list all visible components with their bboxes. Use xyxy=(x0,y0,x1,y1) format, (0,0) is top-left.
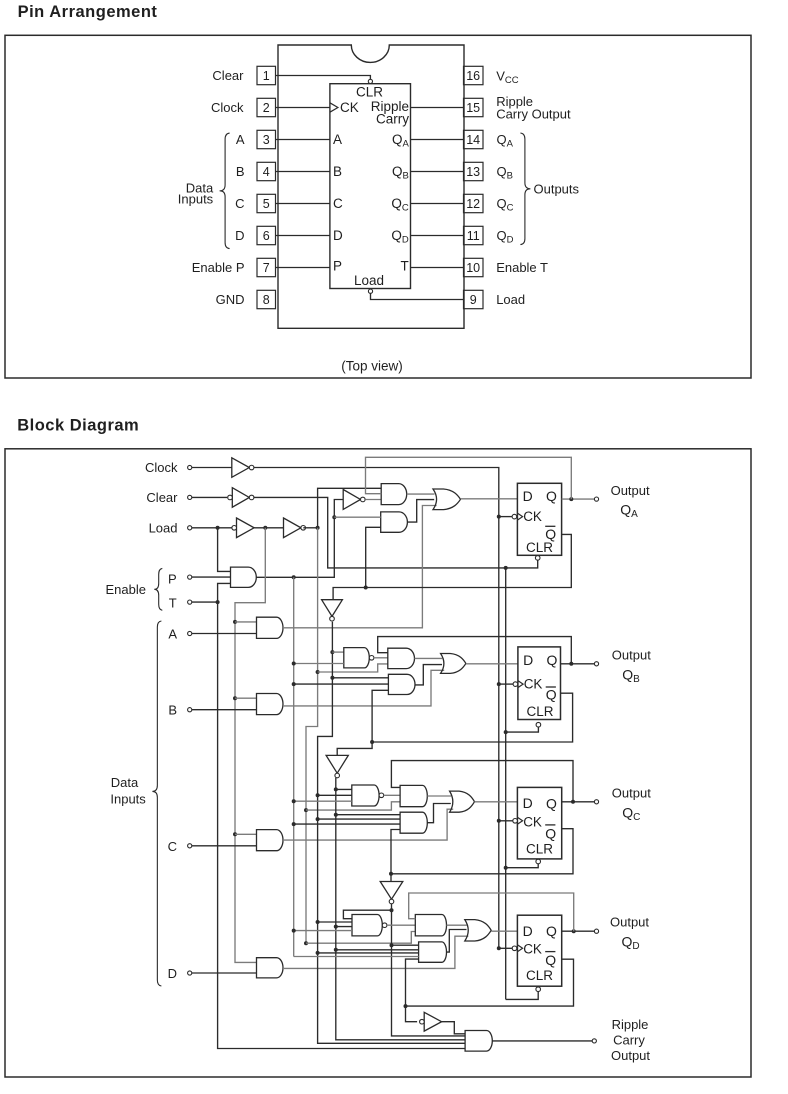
svg-text:Load: Load xyxy=(496,292,525,307)
pin box 15 xyxy=(464,98,484,116)
wire T bus from load line to enable gate xyxy=(218,528,231,572)
bubble CK QD xyxy=(512,946,517,951)
svg-text:Output: Output xyxy=(611,1048,650,1063)
junction CK QB xyxy=(497,682,501,686)
svg-text:T: T xyxy=(169,595,177,610)
wire QB feedback loop xyxy=(378,637,572,664)
load inverter G4 xyxy=(284,518,301,538)
junction LD bus xyxy=(316,526,320,530)
wire pin 1 to CLR bubble xyxy=(276,76,371,80)
wire QD or output to D input xyxy=(491,930,517,932)
svg-text:Q: Q xyxy=(546,923,557,939)
wire T input to junction xyxy=(192,601,218,603)
svg-text:Load: Load xyxy=(149,521,178,536)
svg-text:D: D xyxy=(523,488,533,504)
svg-text:P: P xyxy=(333,259,342,274)
svg-text:Clock: Clock xyxy=(145,460,178,475)
svg-text:P: P xyxy=(168,571,177,586)
wire pin 14 to inner box xyxy=(411,139,464,141)
svg-text:Carry: Carry xyxy=(613,1033,645,1048)
svg-text:CK: CK xyxy=(340,100,359,115)
wire pin 9 to Load bubble xyxy=(371,293,464,299)
svg-text:Q: Q xyxy=(546,796,557,812)
QA and2 gate xyxy=(381,512,408,532)
wire QD Q output xyxy=(562,930,595,932)
QB or gate xyxy=(441,654,466,674)
junction QB to QC and2 xyxy=(334,813,338,817)
svg-text:CLR: CLR xyxy=(526,968,553,983)
wire QC and2 output riser to or xyxy=(427,804,451,823)
svg-text:D: D xyxy=(523,795,533,811)
junction PT QC and2 xyxy=(292,822,296,826)
svg-text:B: B xyxy=(168,703,177,718)
wire PT to QB and2 xyxy=(294,683,389,685)
node QC output terminal xyxy=(594,800,598,804)
pin box 12 xyxy=(464,194,484,212)
svg-text:9: 9 xyxy=(470,293,477,307)
wire pin 4 to inner box xyxy=(276,171,330,173)
junction QA to QC nand xyxy=(316,793,320,797)
wire T riser to enable gate xyxy=(218,583,231,602)
wire QC or output to D input xyxy=(475,801,518,803)
bubble CK QB xyxy=(513,682,518,687)
junction CLR bus top xyxy=(504,566,508,570)
svg-text:Ripple: Ripple xyxy=(612,1017,649,1032)
node T input terminal xyxy=(188,600,192,604)
svg-text:C: C xyxy=(168,839,177,854)
pin box 16 xyxy=(464,66,484,84)
wire Clear input to inverter xyxy=(192,496,227,498)
clock wedge symbol xyxy=(330,103,338,112)
bubble CK QA xyxy=(512,514,517,519)
svg-text:Load: Load xyxy=(354,273,384,288)
wire T bus down to ripple gate xyxy=(218,602,466,1048)
svg-text:D: D xyxy=(333,228,343,243)
QA or gate xyxy=(433,489,461,510)
QB and1 gate xyxy=(388,648,415,668)
junction QD feedback xyxy=(572,929,576,933)
wire QA and2 output riser to or xyxy=(407,500,434,522)
CLR input bubble (pin diagram) xyxy=(368,79,372,83)
wire QA and1 output to or xyxy=(407,493,435,495)
wire A gate output to QA or xyxy=(283,506,437,628)
bubble CLR QC flipflop xyxy=(536,859,541,864)
wire QA Q-bar riser to and2 xyxy=(366,527,381,587)
brace enable PT xyxy=(154,568,162,610)
wire QB bus xyxy=(336,778,465,1040)
node D input terminal xyxy=(188,971,192,975)
junction PT to QA and2 xyxy=(332,515,336,519)
svg-text:Data: Data xyxy=(111,775,139,790)
pin box 7 xyxy=(257,258,276,276)
svg-text:CLR: CLR xyxy=(526,841,553,856)
svg-text:CK: CK xyxy=(523,509,542,524)
wire QD Q-bar loop xyxy=(406,959,574,1006)
node QD output terminal xyxy=(594,929,598,933)
wire QB Q output xyxy=(561,663,595,665)
wire ripple gate output xyxy=(492,1040,592,1042)
wire pin 13 to inner box xyxy=(411,171,464,173)
svg-text:11: 11 xyxy=(467,229,480,243)
brace data inputs pins 3-6 xyxy=(220,133,230,249)
wire CLR bus xyxy=(505,568,507,1000)
svg-text:12: 12 xyxy=(466,197,480,211)
svg-text:Q: Q xyxy=(545,825,556,841)
junction QA to QD nand xyxy=(316,920,320,924)
svg-text:16: 16 xyxy=(466,69,480,83)
junction QC to QD and2 xyxy=(390,943,394,947)
pin box 13 xyxy=(464,162,484,180)
QA inverter (down) xyxy=(322,600,343,617)
junction CLR QB xyxy=(504,730,508,734)
wire A input to gate xyxy=(192,633,257,635)
flipflop QB xyxy=(518,647,561,720)
wire QD nand to and1 xyxy=(387,924,415,926)
svg-text:CLR: CLR xyxy=(356,85,383,100)
wire PT branch to QA and2 xyxy=(334,516,380,518)
junction CK QA xyxy=(497,515,501,519)
junction QA to QD and2 xyxy=(316,951,320,955)
QD nand gate xyxy=(352,915,382,936)
wire CLR to QB flipflop xyxy=(506,727,539,732)
svg-text:Enable: Enable xyxy=(106,582,146,597)
wire LD to QB and1 jog xyxy=(318,664,388,672)
svg-text:A: A xyxy=(236,132,245,147)
wire LD-bar bus xyxy=(235,528,265,963)
svg-text:C: C xyxy=(333,196,343,211)
wire PT bus down xyxy=(293,577,295,956)
node P input terminal xyxy=(188,575,192,579)
junction QC Q-bar riser xyxy=(389,872,393,876)
svg-text:CK: CK xyxy=(523,814,542,829)
wire B input to gate xyxy=(192,709,257,711)
svg-text:(Top view): (Top view) xyxy=(341,359,403,374)
junction QC feedback xyxy=(571,800,575,804)
ripple buffer G7 (input bubble) xyxy=(424,1012,441,1031)
load buffer G3 (input bubble) xyxy=(237,518,255,538)
wire QB and2 output riser to or xyxy=(415,665,442,685)
pin box 2 xyxy=(257,98,276,116)
bubble QD nand xyxy=(382,923,387,928)
wire CK stub QD xyxy=(499,947,512,949)
wire load inverter output xyxy=(303,527,317,529)
wire pin 15 to inner box xyxy=(411,107,464,109)
wire QA bus xyxy=(318,622,466,1044)
wire pin 5 to inner box xyxy=(276,203,330,205)
wire LD to QD and1 jog xyxy=(306,932,415,944)
junction QA feedback xyxy=(569,497,573,501)
svg-text:4: 4 xyxy=(263,165,270,179)
QB and2 gate xyxy=(388,674,415,694)
svg-text:6: 6 xyxy=(263,229,270,243)
svg-text:D: D xyxy=(523,923,533,939)
bubble CK QC xyxy=(513,819,518,824)
wire QB or output to D input xyxy=(466,663,518,665)
data AND gate D xyxy=(257,958,284,978)
pin box 5 xyxy=(257,194,276,212)
junction QB to QD nand xyxy=(334,925,338,929)
junction CLR QC xyxy=(504,866,508,870)
svg-text:D: D xyxy=(235,228,244,243)
svg-text:10: 10 xyxy=(466,261,480,275)
wire CK stub QB xyxy=(499,683,513,685)
svg-text:Enable T: Enable T xyxy=(496,260,548,275)
wire pin 7 to inner box xyxy=(276,267,330,269)
wire QC bus xyxy=(392,904,466,1036)
bubble QC nand xyxy=(379,793,384,798)
wire CK stub QA xyxy=(499,516,512,518)
wire enable gate output to PT bus xyxy=(256,500,343,578)
wire PT to QB nand xyxy=(294,663,344,665)
wire LD to QC and1 jog xyxy=(306,802,400,810)
junction PT QC nand xyxy=(292,799,296,803)
QD or gate xyxy=(465,920,491,941)
Load input bubble (pin diagram) xyxy=(368,289,372,293)
pin box 14 xyxy=(464,130,484,148)
wire QC feedback loop xyxy=(391,761,573,802)
wire pin 6 to inner box xyxy=(276,235,330,237)
junction QC to QD nand jog xyxy=(390,908,394,912)
svg-text:GND: GND xyxy=(216,292,245,307)
svg-text:Clear: Clear xyxy=(212,68,244,83)
junction QB to QD and2 xyxy=(334,948,338,952)
data AND gate A xyxy=(257,617,284,638)
bubble QB nand xyxy=(369,656,374,661)
svg-text:Carry: Carry xyxy=(376,112,409,127)
svg-text:Output: Output xyxy=(610,915,649,930)
wire QB Q-bar riser to and2 xyxy=(372,690,388,742)
node A input terminal xyxy=(188,631,192,635)
wire clear inverter to CLR distribution xyxy=(254,497,538,568)
junction QB Q-bar riser xyxy=(370,740,374,744)
node Clear input terminal xyxy=(188,495,192,499)
wire enable inverter to QA and1 xyxy=(365,499,381,501)
QC and2 gate xyxy=(400,812,427,833)
IC package body DIP-16 outline with notch xyxy=(278,45,464,328)
pin box 3 xyxy=(257,130,276,148)
wire QD and2 output riser to or xyxy=(447,930,467,953)
junction LD to QC and1 xyxy=(304,808,308,812)
svg-text:Enable P: Enable P xyxy=(192,260,245,275)
junction LD-bar to C gate xyxy=(233,832,237,836)
brace data inputs A-D xyxy=(152,621,161,986)
svg-text:7: 7 xyxy=(263,261,270,275)
pin box 11 xyxy=(464,226,484,244)
svg-text:Output: Output xyxy=(612,786,651,801)
wire QA Q-bar loop xyxy=(333,534,571,599)
wire QD Q-bar to ripple buffer xyxy=(406,1006,418,1022)
wire PT to QD nand xyxy=(294,930,352,932)
svg-text:15: 15 xyxy=(466,101,480,115)
svg-text:Clock: Clock xyxy=(211,100,244,115)
node C input terminal xyxy=(188,844,192,848)
QB inverter (down) xyxy=(326,755,348,773)
QA and1 gate xyxy=(381,484,407,505)
bubble CLR QA flipflop xyxy=(535,556,540,561)
svg-text:Outputs: Outputs xyxy=(534,182,580,197)
QD and2 gate xyxy=(419,942,447,962)
wire QB nand to and1 xyxy=(374,657,388,659)
clock buffer G1 xyxy=(232,458,250,478)
node QB output terminal xyxy=(594,662,598,666)
svg-text:D: D xyxy=(168,966,177,981)
data AND gate C xyxy=(257,830,284,851)
wire clock buffer to CK bus xyxy=(254,468,499,949)
svg-text:Q: Q xyxy=(546,686,557,702)
wire LD-bar to A gate xyxy=(235,621,257,623)
wire pin 10 to inner box xyxy=(411,267,464,269)
brace outputs pins 14-11 xyxy=(520,133,530,245)
data AND gate B xyxy=(257,694,283,715)
wire QB and1 output to or xyxy=(415,657,443,659)
wire QB Q-bar loop xyxy=(372,693,572,742)
junction PT QD nand xyxy=(292,929,296,933)
svg-text:1: 1 xyxy=(263,69,270,83)
svg-text:Inputs: Inputs xyxy=(178,192,214,207)
frame block-diagram section xyxy=(5,449,751,1077)
QC and1 gate xyxy=(400,785,427,806)
wire QD Q-bar riser to and2 xyxy=(406,959,419,1006)
wire QC Q-bar to inverter xyxy=(390,874,392,882)
flipflop QD xyxy=(517,915,561,986)
wire D input to gate xyxy=(192,972,257,974)
node Clock input terminal xyxy=(188,465,192,469)
junction LD to QD and1 xyxy=(304,941,308,945)
svg-text:Output: Output xyxy=(612,648,651,663)
wire QB Q-bar jog to inverter xyxy=(337,742,372,755)
junction CK QC xyxy=(497,819,501,823)
svg-text:CLR: CLR xyxy=(526,540,553,555)
wire CK stub QC xyxy=(499,820,513,822)
wire pin 3 to inner box xyxy=(276,139,330,141)
wire pin 2 to inner box xyxy=(276,107,330,109)
svg-text:Pin Arrangement: Pin Arrangement xyxy=(18,3,158,21)
wire Clock input to buffer xyxy=(192,467,232,469)
QC inverter (down) xyxy=(380,882,403,900)
junction LD-bar to A gate xyxy=(233,620,237,624)
svg-text:5: 5 xyxy=(263,197,270,211)
junction LD to QB and1 xyxy=(316,670,320,674)
wire C input to gate xyxy=(192,845,257,847)
junction PT QB and2 xyxy=(292,682,296,686)
wire QD feedback loop xyxy=(409,893,574,931)
wire PT to QC nand xyxy=(294,800,352,802)
svg-text:13: 13 xyxy=(466,165,480,179)
wire LD-bar to C gate xyxy=(235,833,257,835)
svg-text:Q: Q xyxy=(547,652,558,668)
pin box 9 xyxy=(464,290,484,308)
node Load input terminal xyxy=(188,526,192,530)
bubble CLR QD flipflop xyxy=(536,987,541,992)
svg-text:Block Diagram: Block Diagram xyxy=(17,416,139,434)
svg-text:3: 3 xyxy=(263,133,270,147)
junction QD Q-bar riser xyxy=(404,1004,408,1008)
ripple AND gate G8 xyxy=(465,1031,492,1052)
svg-text:CLR: CLR xyxy=(527,704,554,719)
svg-text:14: 14 xyxy=(466,133,480,147)
wire QA or output to D input xyxy=(461,498,518,500)
enable inverter G6 xyxy=(343,490,360,510)
wire P input to enable gate xyxy=(192,576,231,578)
wire QC Q-bar riser to and2 xyxy=(391,830,400,874)
junction load to enable gate xyxy=(216,526,220,530)
svg-text:Output: Output xyxy=(611,483,650,498)
junction QA to QB nand xyxy=(330,650,334,654)
svg-text:A: A xyxy=(168,627,177,642)
junction load-bar bus xyxy=(263,526,267,530)
svg-text:B: B xyxy=(333,164,342,179)
QC or gate xyxy=(450,791,475,812)
svg-text:T: T xyxy=(401,259,409,274)
wire QC Q-bar loop xyxy=(391,829,573,874)
wire QC and1 output to or xyxy=(427,795,451,797)
junction PT QB nand xyxy=(292,662,296,666)
svg-text:CK: CK xyxy=(523,941,542,956)
svg-text:Q: Q xyxy=(546,488,557,504)
junction QB to QC nand xyxy=(334,787,338,791)
frame pin-arrangement section xyxy=(5,35,751,378)
enable AND gate G5 (Load P T) xyxy=(231,567,257,587)
QC nand gate xyxy=(352,785,379,806)
wire between load buffers xyxy=(254,527,283,529)
wire LD bus down xyxy=(306,528,318,943)
wire LD-bar to B gate xyxy=(235,697,257,699)
svg-text:CK: CK xyxy=(524,677,543,692)
junction QA to QC and2 xyxy=(316,817,320,821)
node B input terminal xyxy=(188,708,192,712)
bubble CLR QB flipflop xyxy=(536,722,541,727)
wire PT to QD and2 xyxy=(294,956,419,958)
pin box 8 xyxy=(257,290,276,308)
junction PT bus xyxy=(292,575,296,579)
wire QD and1 output to or xyxy=(447,924,467,926)
junction CK QD xyxy=(497,946,501,950)
svg-text:B: B xyxy=(236,164,245,179)
node ripple carry output terminal xyxy=(592,1039,596,1043)
wire QC nand to and1 xyxy=(384,794,400,796)
svg-text:C: C xyxy=(235,196,244,211)
wire pin 11 to inner box xyxy=(411,235,464,237)
svg-text:Inputs: Inputs xyxy=(110,792,146,807)
pin box 10 xyxy=(464,258,484,276)
wire ripple buffer to ripple gate xyxy=(442,1022,466,1034)
QD and1 gate xyxy=(415,915,446,936)
wire CLR to QC flipflop xyxy=(506,864,539,868)
flipflop QC xyxy=(517,787,561,859)
svg-text:Carry Output: Carry Output xyxy=(496,107,571,122)
svg-text:8: 8 xyxy=(263,293,270,307)
svg-text:Clear: Clear xyxy=(146,490,178,505)
node QA output terminal xyxy=(594,497,598,501)
clear inverter G2 xyxy=(232,488,249,508)
svg-text:Q: Q xyxy=(545,952,556,968)
wire PT to QC and2 xyxy=(294,823,400,825)
wire QA Q output xyxy=(562,498,595,500)
wire CLR to QD flipflop xyxy=(506,992,539,1000)
flipflop QA xyxy=(517,483,561,555)
inner function box xyxy=(330,84,411,289)
wire LD bus up-leg to QA and1 xyxy=(318,488,382,528)
junction T bus xyxy=(216,600,220,604)
wire Load input to first buffer xyxy=(192,527,232,529)
svg-text:A: A xyxy=(333,132,342,147)
junction QA to QB and2 xyxy=(330,676,334,680)
wire QA feedback loop xyxy=(366,457,572,499)
pin box 4 xyxy=(257,162,276,180)
QB nand gate xyxy=(344,648,369,668)
junction QB feedback xyxy=(569,662,573,666)
junction QA Q-bar riser xyxy=(364,586,368,590)
